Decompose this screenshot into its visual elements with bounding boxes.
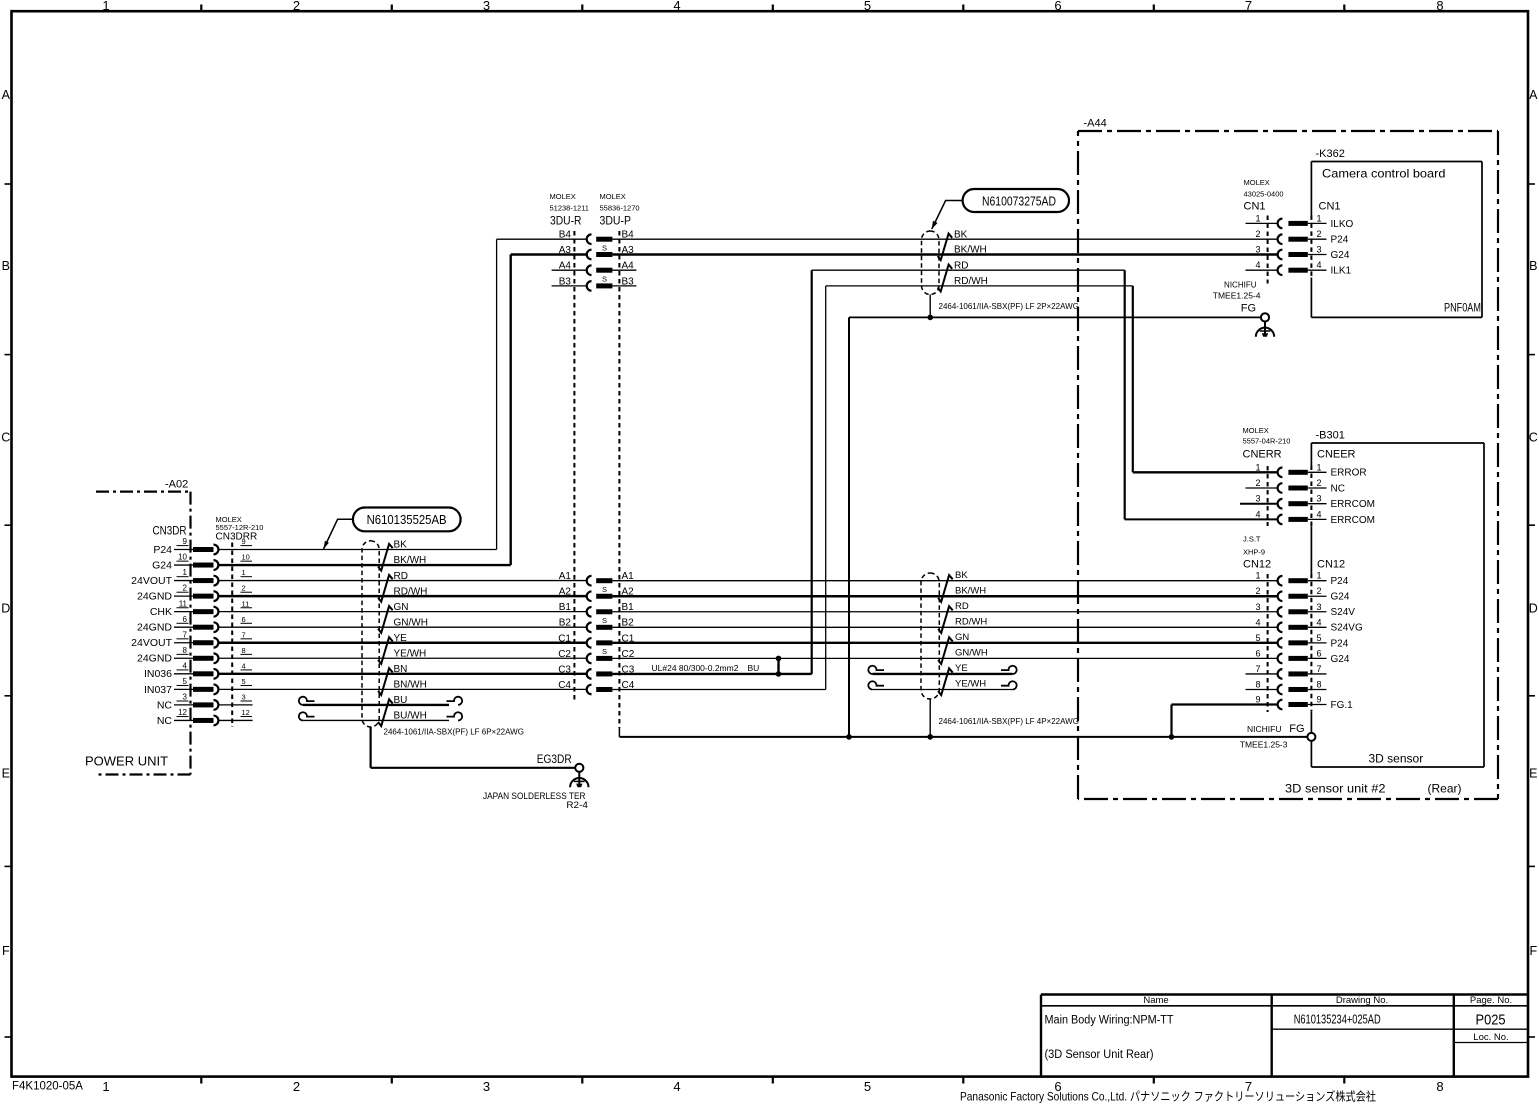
svg-text:3: 3 bbox=[1316, 494, 1321, 504]
wire YE: CN3DRR pin 7 to 3DU-R bbox=[219, 642, 587, 644]
svg-text:8: 8 bbox=[1255, 679, 1260, 689]
svg-text:2: 2 bbox=[1316, 229, 1321, 239]
svg-text:GN: GN bbox=[955, 632, 969, 643]
svg-text:YE/WH: YE/WH bbox=[394, 648, 427, 659]
svg-text:10: 10 bbox=[242, 553, 250, 562]
svg-text:C: C bbox=[1, 431, 10, 445]
svg-text:11: 11 bbox=[242, 599, 250, 608]
twisted pair symbol 6P pair 2 bbox=[378, 575, 393, 602]
svg-text:N610073275AD: N610073275AD bbox=[982, 194, 1056, 208]
connector 3DU pin C1 bbox=[558, 633, 635, 647]
connector CN3DR pin 12 (NC) bbox=[157, 708, 252, 727]
wire stub: CN3DRR pin12 NC bbox=[219, 719, 253, 721]
svg-text:D: D bbox=[1529, 602, 1538, 616]
svg-text:1: 1 bbox=[183, 568, 188, 577]
svg-text:6: 6 bbox=[1255, 648, 1260, 658]
svg-text:6: 6 bbox=[183, 615, 188, 624]
svg-text:1: 1 bbox=[1255, 462, 1260, 472]
svg-text:4: 4 bbox=[1316, 617, 1321, 627]
svg-text:RD/WH: RD/WH bbox=[955, 617, 987, 628]
wire BK: CN3DRR pin9 P24 to riser bbox=[219, 549, 497, 551]
junction bus / 4P drain bbox=[927, 734, 933, 740]
svg-text:7: 7 bbox=[1316, 664, 1321, 674]
camera control board -K362 box bbox=[1311, 148, 1482, 317]
svg-text:YE: YE bbox=[955, 663, 968, 674]
svg-text:NC: NC bbox=[157, 699, 173, 711]
connector CN3DR pin 1 (24VOUT) bbox=[131, 568, 252, 587]
svg-text:C1: C1 bbox=[558, 633, 571, 644]
svg-text:2: 2 bbox=[1255, 229, 1260, 239]
svg-text:2: 2 bbox=[1255, 586, 1260, 596]
wire BK (4P cable): 3DU-P to CN12 pin1 bbox=[612, 580, 1278, 582]
connector CNERR body lines bbox=[1268, 466, 1312, 527]
svg-text:S: S bbox=[602, 243, 607, 252]
svg-text:Page. No.: Page. No. bbox=[1470, 995, 1512, 1006]
connector 3DU pin B3 bbox=[559, 275, 634, 291]
svg-text:FG: FG bbox=[1289, 723, 1304, 735]
power unit block -A02 boundary bbox=[96, 479, 191, 775]
twisted pair symbol 4P pair 1 bbox=[938, 575, 953, 602]
svg-text:BN: BN bbox=[394, 664, 408, 675]
svg-text:RD/WH: RD/WH bbox=[394, 586, 428, 597]
svg-text:7: 7 bbox=[183, 630, 188, 639]
svg-text:11: 11 bbox=[179, 599, 188, 608]
svg-text:2: 2 bbox=[293, 1079, 300, 1094]
cut wire BU (6P cable) bbox=[299, 697, 462, 705]
svg-text:G24: G24 bbox=[152, 559, 172, 571]
svg-text:3: 3 bbox=[1255, 494, 1260, 504]
svg-text:E: E bbox=[1529, 767, 1537, 781]
svg-text:8: 8 bbox=[1436, 1079, 1443, 1094]
svg-text:P24: P24 bbox=[153, 544, 172, 556]
svg-text:RD: RD bbox=[394, 571, 408, 582]
svg-text:1: 1 bbox=[102, 0, 109, 13]
connector CN3DR pin 8 (24GND) bbox=[137, 646, 252, 665]
svg-text:S24VG: S24VG bbox=[1331, 623, 1363, 634]
svg-text:2464-1061/IIA-SBX(PF) LF 6P×22: 2464-1061/IIA-SBX(PF) LF 6P×22AWG bbox=[384, 728, 524, 737]
connector CN1 pin 1 (ILKO) bbox=[1255, 213, 1353, 229]
svg-text:GN/WH: GN/WH bbox=[394, 617, 428, 628]
connector CN3DR pin 3 (NC) bbox=[157, 693, 252, 712]
svg-text:9: 9 bbox=[1255, 695, 1260, 705]
svg-text:N610135234+025AD: N610135234+025AD bbox=[1294, 1012, 1381, 1027]
svg-text:-A02: -A02 bbox=[165, 479, 188, 491]
svg-text:2: 2 bbox=[1316, 478, 1321, 488]
connector CN1 body lines bbox=[1268, 215, 1312, 283]
wire stub CN12 pin8 bbox=[1246, 688, 1278, 690]
svg-text:4: 4 bbox=[1255, 509, 1260, 519]
twisted pair symbol 6P pair 4 bbox=[378, 637, 393, 664]
wire CNERR pin1 from riser bbox=[1133, 471, 1278, 473]
connector 3DU pin C3 bbox=[558, 664, 635, 678]
unit boundary -A44 (3D sensor unit #2) bbox=[1078, 118, 1498, 800]
4P cable part number bbox=[939, 717, 1079, 726]
cable N610073275AD 2P shield oval bbox=[922, 231, 940, 295]
svg-text:B: B bbox=[2, 259, 10, 273]
connector CN1 pin 3 (G24) bbox=[1255, 245, 1349, 261]
svg-text:YE: YE bbox=[394, 633, 408, 644]
junction bus / FG riser bbox=[846, 734, 852, 740]
wire RD: C3 riser, row to CNERR pin4 riser bbox=[812, 270, 1125, 674]
svg-text:7: 7 bbox=[1245, 0, 1252, 13]
svg-text:5557-04R-210: 5557-04R-210 bbox=[1243, 437, 1291, 446]
svg-text:S24V: S24V bbox=[1331, 607, 1356, 618]
cable N610135525AB 6P shield oval bbox=[362, 541, 379, 727]
svg-text:RD: RD bbox=[955, 601, 969, 612]
svg-text:3: 3 bbox=[1316, 245, 1321, 255]
svg-text:CN1: CN1 bbox=[1319, 201, 1341, 213]
svg-text:2: 2 bbox=[1316, 586, 1321, 596]
svg-text:CNERR: CNERR bbox=[1243, 449, 1282, 461]
wire RD/WH: CN3DRR pin 2 to 3DU-R bbox=[219, 595, 587, 597]
svg-text:GN: GN bbox=[394, 602, 409, 613]
connector CN3DR pin 10 (G24) bbox=[152, 553, 252, 572]
svg-text:3: 3 bbox=[242, 693, 246, 702]
terminal FG (NICHIFU TMEE1.25-3) bbox=[1240, 723, 1316, 750]
svg-text:3: 3 bbox=[483, 1079, 490, 1094]
svg-text:5: 5 bbox=[183, 677, 188, 686]
svg-text:G24: G24 bbox=[1331, 592, 1350, 603]
svg-text:-A44: -A44 bbox=[1084, 118, 1107, 130]
connector CN12 pin 5 (P24) bbox=[1255, 633, 1348, 649]
connector CN3DR pin 11 (CHK) bbox=[150, 599, 252, 618]
connector CN1 pin 4 (ILK1) bbox=[1255, 260, 1351, 276]
svg-text:Drawing No.: Drawing No. bbox=[1336, 995, 1388, 1006]
wire BK/WH (4P cable): 3DU-P to CN12 pin2 bbox=[612, 595, 1278, 597]
svg-text:S: S bbox=[602, 275, 607, 284]
svg-text:BK/WH: BK/WH bbox=[955, 585, 986, 596]
svg-text:YE/WH: YE/WH bbox=[955, 679, 986, 690]
svg-text:4: 4 bbox=[673, 0, 680, 13]
svg-text:1: 1 bbox=[1316, 571, 1321, 581]
svg-text:9: 9 bbox=[242, 537, 246, 546]
svg-text:BU: BU bbox=[394, 695, 408, 706]
svg-text:3D sensor: 3D sensor bbox=[1369, 752, 1424, 766]
cable label callout N610073275AD bbox=[932, 189, 1069, 229]
svg-text:(Rear): (Rear) bbox=[1428, 782, 1462, 796]
unit label 3D sensor unit #2 (Rear) bbox=[1285, 782, 1462, 796]
svg-text:TMEE1.25-3: TMEE1.25-3 bbox=[1240, 740, 1288, 750]
svg-text:NC: NC bbox=[157, 715, 173, 727]
svg-text:D: D bbox=[1, 602, 10, 616]
2P cable part number bbox=[939, 302, 1079, 311]
connector CNERR pin 3 (ERRCOM) bbox=[1255, 494, 1374, 510]
svg-text:3: 3 bbox=[1316, 602, 1321, 612]
wire: 6P shield drain to EG3DR bbox=[371, 727, 575, 768]
svg-text:BK/WH: BK/WH bbox=[394, 555, 427, 566]
svg-text:8: 8 bbox=[183, 646, 188, 655]
svg-text:CN12: CN12 bbox=[1243, 559, 1271, 571]
twisted pair symbol 4P pair 2 bbox=[938, 606, 953, 633]
connector CN3DR pin 9 (P24) bbox=[153, 537, 252, 556]
svg-text:C: C bbox=[1529, 431, 1538, 445]
svg-text:5: 5 bbox=[1255, 633, 1260, 643]
svg-text:2: 2 bbox=[293, 0, 300, 13]
wire GN: CN3DRR pin 11 to 3DU-R bbox=[219, 611, 587, 613]
svg-text:P24: P24 bbox=[1331, 638, 1349, 649]
svg-text:3: 3 bbox=[183, 693, 188, 702]
svg-text:ILK1: ILK1 bbox=[1331, 266, 1352, 277]
wire stub CNERR pin2 bbox=[1246, 487, 1278, 489]
cable label callout N610135525AB bbox=[324, 508, 461, 550]
svg-text:IN036: IN036 bbox=[144, 668, 172, 680]
svg-text:B: B bbox=[1529, 259, 1537, 273]
svg-text:4: 4 bbox=[1316, 260, 1321, 270]
svg-text:4: 4 bbox=[1255, 617, 1260, 627]
connector 3DU-P body line bbox=[618, 231, 620, 728]
svg-text:6: 6 bbox=[242, 615, 246, 624]
connector CN3DR / CN3DRR labels bbox=[153, 515, 264, 543]
svg-text:Panasonic Factory Solutions Co: Panasonic Factory Solutions Co.,Ltd. パナソ… bbox=[960, 1089, 1376, 1104]
svg-text:J.S.T: J.S.T bbox=[1243, 535, 1261, 544]
svg-text:ILKO: ILKO bbox=[1331, 219, 1354, 230]
svg-text:1: 1 bbox=[242, 568, 246, 577]
twisted pair symbol 2P pair 2 bbox=[938, 265, 953, 292]
svg-text:10: 10 bbox=[178, 553, 187, 562]
connector CN12 pin 6 (G24) bbox=[1255, 648, 1349, 664]
svg-text:BN/WH: BN/WH bbox=[394, 680, 427, 691]
wire stub CN1 pin4 bbox=[1246, 269, 1278, 271]
svg-text:N610135525AB: N610135525AB bbox=[367, 513, 447, 527]
svg-text:NICHIFU: NICHIFU bbox=[1224, 281, 1257, 290]
connector 3DU pin A1 bbox=[559, 571, 634, 585]
jumper wire C2 to C3 bbox=[777, 658, 779, 674]
svg-text:24GND: 24GND bbox=[137, 622, 172, 634]
connector CNERR pin 2 (NC) bbox=[1255, 478, 1344, 494]
twisted pair symbol 4P pair 4 bbox=[938, 668, 953, 695]
ground FG (NICHIFU TMEE1.25-4) bbox=[1213, 281, 1274, 337]
svg-text:2: 2 bbox=[1255, 478, 1260, 488]
svg-text:51238-1211: 51238-1211 bbox=[550, 204, 589, 213]
wire: 3DU-P C4 to riser bbox=[612, 688, 825, 690]
wire BN: CN3DRR pin 4 to 3DU-R bbox=[219, 673, 587, 675]
label UL#24 wire bbox=[652, 663, 760, 673]
wire stub: CN3DRR pin3 NC bbox=[219, 704, 253, 706]
connector CN12 pin 9 (FG.1) bbox=[1255, 695, 1353, 711]
connector CN3DR pin 4 (IN036) bbox=[144, 661, 252, 680]
connector CN12 pin 2 (G24) bbox=[1255, 586, 1349, 602]
junction C2 row bbox=[776, 656, 782, 662]
svg-text:Main Body Wiring:NPM-TT: Main Body Wiring:NPM-TT bbox=[1045, 1015, 1174, 1027]
wire RD: CN3DRR pin 1 to 3DU-R bbox=[219, 580, 587, 582]
svg-text:F: F bbox=[2, 944, 10, 958]
svg-text:NC: NC bbox=[1331, 483, 1345, 494]
cut wire YE (4P cable) bbox=[868, 666, 1016, 674]
svg-text:12: 12 bbox=[242, 708, 250, 717]
svg-text:7: 7 bbox=[1255, 664, 1260, 674]
svg-text:P24: P24 bbox=[1331, 235, 1349, 246]
svg-text:CHK: CHK bbox=[150, 606, 172, 618]
svg-text:S: S bbox=[602, 647, 607, 656]
svg-text:BK: BK bbox=[394, 540, 408, 551]
svg-text:(3D Sensor Unit Rear): (3D Sensor Unit Rear) bbox=[1045, 1049, 1154, 1061]
connector 3DU pin A2 bbox=[559, 585, 634, 601]
svg-text:PNF0AM: PNF0AM bbox=[1444, 303, 1481, 315]
svg-text:4: 4 bbox=[673, 1079, 680, 1094]
svg-text:A: A bbox=[2, 88, 11, 102]
svg-text:G24: G24 bbox=[1331, 250, 1350, 261]
svg-text:FG: FG bbox=[1241, 303, 1256, 315]
svg-text:-B301: -B301 bbox=[1316, 430, 1345, 442]
junction C3 row bbox=[776, 671, 782, 677]
svg-text:2464-1061/IIA-SBX(PF) LF 2P×22: 2464-1061/IIA-SBX(PF) LF 2P×22AWG bbox=[939, 302, 1079, 311]
svg-text:S: S bbox=[602, 585, 607, 594]
svg-text:B1: B1 bbox=[559, 602, 572, 613]
svg-text:P24: P24 bbox=[1331, 576, 1349, 587]
svg-text:7: 7 bbox=[242, 630, 246, 639]
wire FG: camera FG line and riser to shield bus bbox=[849, 317, 1261, 737]
twisted pair symbol 6P pair 5 bbox=[378, 668, 393, 695]
wire BK/WH riser and A3 row to CN1 pin3 bbox=[511, 255, 1278, 566]
svg-text:8: 8 bbox=[1436, 0, 1443, 13]
connector CN3DR pin 5 (IN037) bbox=[144, 677, 252, 696]
svg-text:C2: C2 bbox=[558, 649, 571, 660]
svg-text:9: 9 bbox=[183, 537, 188, 546]
svg-text:8: 8 bbox=[1316, 679, 1321, 689]
svg-text:F4K1020-05A: F4K1020-05A bbox=[12, 1081, 83, 1093]
svg-text:CN1: CN1 bbox=[1244, 201, 1266, 213]
svg-text:MOLEX: MOLEX bbox=[1243, 426, 1269, 435]
connector CN12 pin 8 bbox=[1255, 679, 1326, 694]
svg-text:GN/WH: GN/WH bbox=[955, 648, 988, 659]
4P shield drain bbox=[929, 699, 931, 737]
3D sensor board -B301 box bbox=[1311, 430, 1484, 768]
4P cable wire colour labels bbox=[955, 570, 988, 690]
svg-text:Camera control board: Camera control board bbox=[1322, 167, 1446, 181]
svg-text:Loc. No.: Loc. No. bbox=[1473, 1032, 1508, 1043]
connector CN3DR pin 6 (24GND) bbox=[137, 615, 252, 634]
cable 4P shield oval bbox=[921, 573, 939, 699]
POWER UNIT label bbox=[85, 754, 168, 769]
connector 3DU pin B4 bbox=[559, 230, 634, 244]
wire GN/WH: CN3DRR pin 6 to 3DU-R bbox=[219, 626, 587, 628]
twisted pair symbol 6P pair 1 bbox=[378, 544, 393, 571]
connector 3DU-R / 3DU-P labels bbox=[550, 192, 640, 228]
svg-text:R2-4: R2-4 bbox=[566, 800, 588, 811]
svg-text:3DU-P: 3DU-P bbox=[600, 216, 632, 228]
svg-text:24VOUT: 24VOUT bbox=[131, 637, 172, 649]
svg-text:CN3DR: CN3DR bbox=[153, 526, 187, 538]
wire FG.1: CN12 pin9 to bus bbox=[1172, 705, 1278, 737]
wire BK/WH: CN3DRR pin10 G24 to riser bbox=[219, 564, 511, 566]
wire BU (UL#24): 3DU-P C3 to riser bbox=[612, 673, 811, 675]
connector CN1 labels bbox=[1244, 178, 1341, 213]
svg-text:2: 2 bbox=[242, 584, 246, 593]
svg-text:B2: B2 bbox=[559, 618, 572, 629]
svg-text:EG3DR: EG3DR bbox=[537, 754, 572, 766]
wire stub 3DU-R B3 bbox=[552, 285, 637, 287]
junction bus / CN12 pin9 riser bbox=[1169, 734, 1175, 740]
svg-text:6: 6 bbox=[1054, 0, 1061, 13]
cut wire YE/WH (4P cable) bbox=[868, 681, 1016, 689]
wire GN/WH (4P cable): 3DU-P to CN12 pin6 bbox=[612, 657, 1278, 659]
svg-text:9: 9 bbox=[1316, 695, 1321, 705]
connector CN3DRR body line bbox=[231, 543, 233, 728]
svg-text:FG.1: FG.1 bbox=[1331, 700, 1354, 711]
connector CNERR pin 1 (ERROR) bbox=[1255, 462, 1366, 478]
svg-text:3: 3 bbox=[1255, 245, 1260, 255]
svg-text:TMEE1.25-4: TMEE1.25-4 bbox=[1213, 291, 1261, 301]
svg-text:BU/WH: BU/WH bbox=[394, 711, 427, 722]
svg-text:G24: G24 bbox=[1331, 654, 1350, 665]
connector 3DU-R body line bbox=[573, 231, 575, 700]
svg-text:4: 4 bbox=[1255, 260, 1260, 270]
connector 3DU pin B2 bbox=[559, 616, 634, 632]
svg-text:CNEER: CNEER bbox=[1317, 449, 1356, 461]
twisted pair symbol 6P pair 6 bbox=[378, 699, 393, 726]
wire GN (4P cable): 3DU-P to CN12 pin5 bbox=[612, 642, 1278, 644]
twisted pair symbol 6P pair 3 bbox=[378, 606, 393, 633]
wire RD (4P cable): 3DU-P to CN12 pin3 bbox=[612, 611, 1278, 613]
svg-text:5: 5 bbox=[242, 677, 246, 686]
6P cable wire colour labels bbox=[394, 540, 428, 722]
svg-text:IN037: IN037 bbox=[144, 684, 172, 696]
connector 3DU pin A4 bbox=[559, 261, 634, 275]
2P cable wire colour labels bbox=[954, 229, 988, 287]
svg-text:XHP-9: XHP-9 bbox=[1243, 548, 1265, 557]
2P shield drain bbox=[929, 295, 931, 318]
svg-text:NICHIFU: NICHIFU bbox=[1247, 724, 1281, 734]
svg-text:4: 4 bbox=[1316, 509, 1321, 519]
svg-text:5: 5 bbox=[1316, 633, 1321, 643]
svg-text:1: 1 bbox=[1255, 571, 1260, 581]
svg-text:E: E bbox=[2, 767, 10, 781]
ground EG3DR (JAPAN SOLDERLESS TER R2-4) bbox=[483, 754, 589, 811]
svg-text:RD: RD bbox=[954, 260, 968, 271]
twisted pair symbol 4P pair 3 bbox=[938, 637, 953, 664]
wire stub CN12 pin7 bbox=[1246, 673, 1278, 675]
svg-text:3D sensor unit #2: 3D sensor unit #2 bbox=[1285, 782, 1386, 796]
svg-text:MOLEX: MOLEX bbox=[550, 192, 576, 201]
svg-text:5: 5 bbox=[864, 1079, 871, 1094]
junction: 2P drain to FG line bbox=[927, 315, 933, 321]
svg-text:8: 8 bbox=[242, 646, 246, 655]
svg-text:2: 2 bbox=[183, 584, 188, 593]
connector CN12 pin 7 bbox=[1255, 664, 1326, 679]
svg-text:BK/WH: BK/WH bbox=[954, 245, 987, 256]
connector CN12 pin 3 (S24V) bbox=[1255, 602, 1355, 618]
svg-text:Name: Name bbox=[1143, 995, 1168, 1006]
wire stub CNERR pin3 bbox=[1240, 503, 1278, 505]
connector CN3DR pin 7 (24VOUT) bbox=[131, 630, 252, 649]
6P cable part number bbox=[384, 728, 524, 737]
connector CN12 body lines bbox=[1268, 574, 1312, 712]
wire BN/WH: CN3DRR pin 5 to 3DU-R bbox=[219, 688, 587, 690]
connector CNERR labels bbox=[1243, 426, 1356, 461]
connector 3DU pin C4 bbox=[558, 680, 635, 694]
svg-text:4: 4 bbox=[183, 661, 188, 670]
wire RD/WH (4P cable): 3DU-P to CN12 pin4 bbox=[612, 626, 1278, 628]
cut wire BU/WH (6P cable) bbox=[299, 712, 462, 720]
svg-text:3: 3 bbox=[483, 0, 490, 13]
connector CN12 pin 4 (S24VG) bbox=[1255, 617, 1362, 633]
svg-text:P025: P025 bbox=[1476, 1011, 1506, 1028]
svg-text:ERRCOM: ERRCOM bbox=[1331, 499, 1375, 510]
svg-text:A: A bbox=[1529, 88, 1538, 102]
svg-text:1: 1 bbox=[102, 1079, 109, 1094]
wire stub CN1 pin1 bbox=[1246, 222, 1278, 224]
wire: shield ground bus bbox=[619, 728, 1307, 737]
svg-text:C3: C3 bbox=[558, 664, 571, 675]
svg-text:6: 6 bbox=[1316, 648, 1321, 658]
svg-text:1: 1 bbox=[1255, 213, 1260, 223]
svg-text:POWER UNIT: POWER UNIT bbox=[85, 754, 168, 769]
svg-text:3: 3 bbox=[1255, 602, 1260, 612]
connector 3DU pin B1 bbox=[559, 602, 634, 616]
connector CN3DR pin 2 (24GND) bbox=[137, 584, 252, 603]
svg-text:A1: A1 bbox=[559, 571, 572, 582]
wire BK riser and B4 row to CN1 pin2 bbox=[497, 239, 1278, 549]
